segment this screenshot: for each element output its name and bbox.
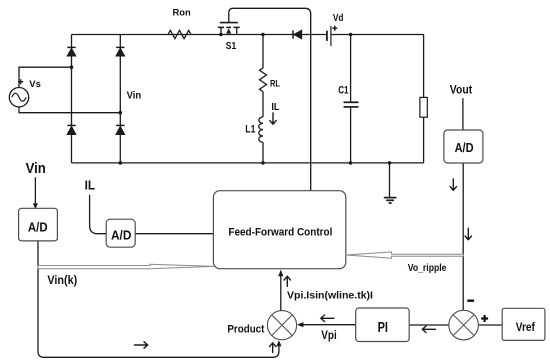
svg-text:Vin(k): Vin(k) [47,273,77,287]
svg-text:Product: Product [227,323,264,335]
svg-text:A/D: A/D [455,141,474,155]
svg-text:Vin: Vin [26,161,46,177]
svg-text:PI: PI [378,320,388,336]
svg-text:Vd: Vd [333,13,344,24]
svg-text:A/D: A/D [28,221,48,235]
svg-text:Ron: Ron [173,8,191,19]
svg-text:Vref: Vref [516,320,536,334]
svg-text:Vs: Vs [29,79,41,90]
svg-text:Vout: Vout [450,83,472,97]
svg-text:RL: RL [270,79,280,89]
svg-text:Vin: Vin [127,91,142,102]
svg-text:L1: L1 [245,124,256,136]
svg-text:S1: S1 [226,41,237,52]
svg-text:Vo_ripple: Vo_ripple [408,263,447,274]
svg-text:Vpi: Vpi [321,328,336,342]
svg-text:IL: IL [271,102,279,113]
svg-text:A/D: A/D [111,229,131,243]
svg-text:C1: C1 [338,84,348,96]
svg-text:IL: IL [85,178,96,193]
svg-text:Vpi.Isin(wline.tk)I: Vpi.Isin(wline.tk)I [287,291,373,302]
svg-text:Feed-Forward Control: Feed-Forward Control [228,227,332,239]
